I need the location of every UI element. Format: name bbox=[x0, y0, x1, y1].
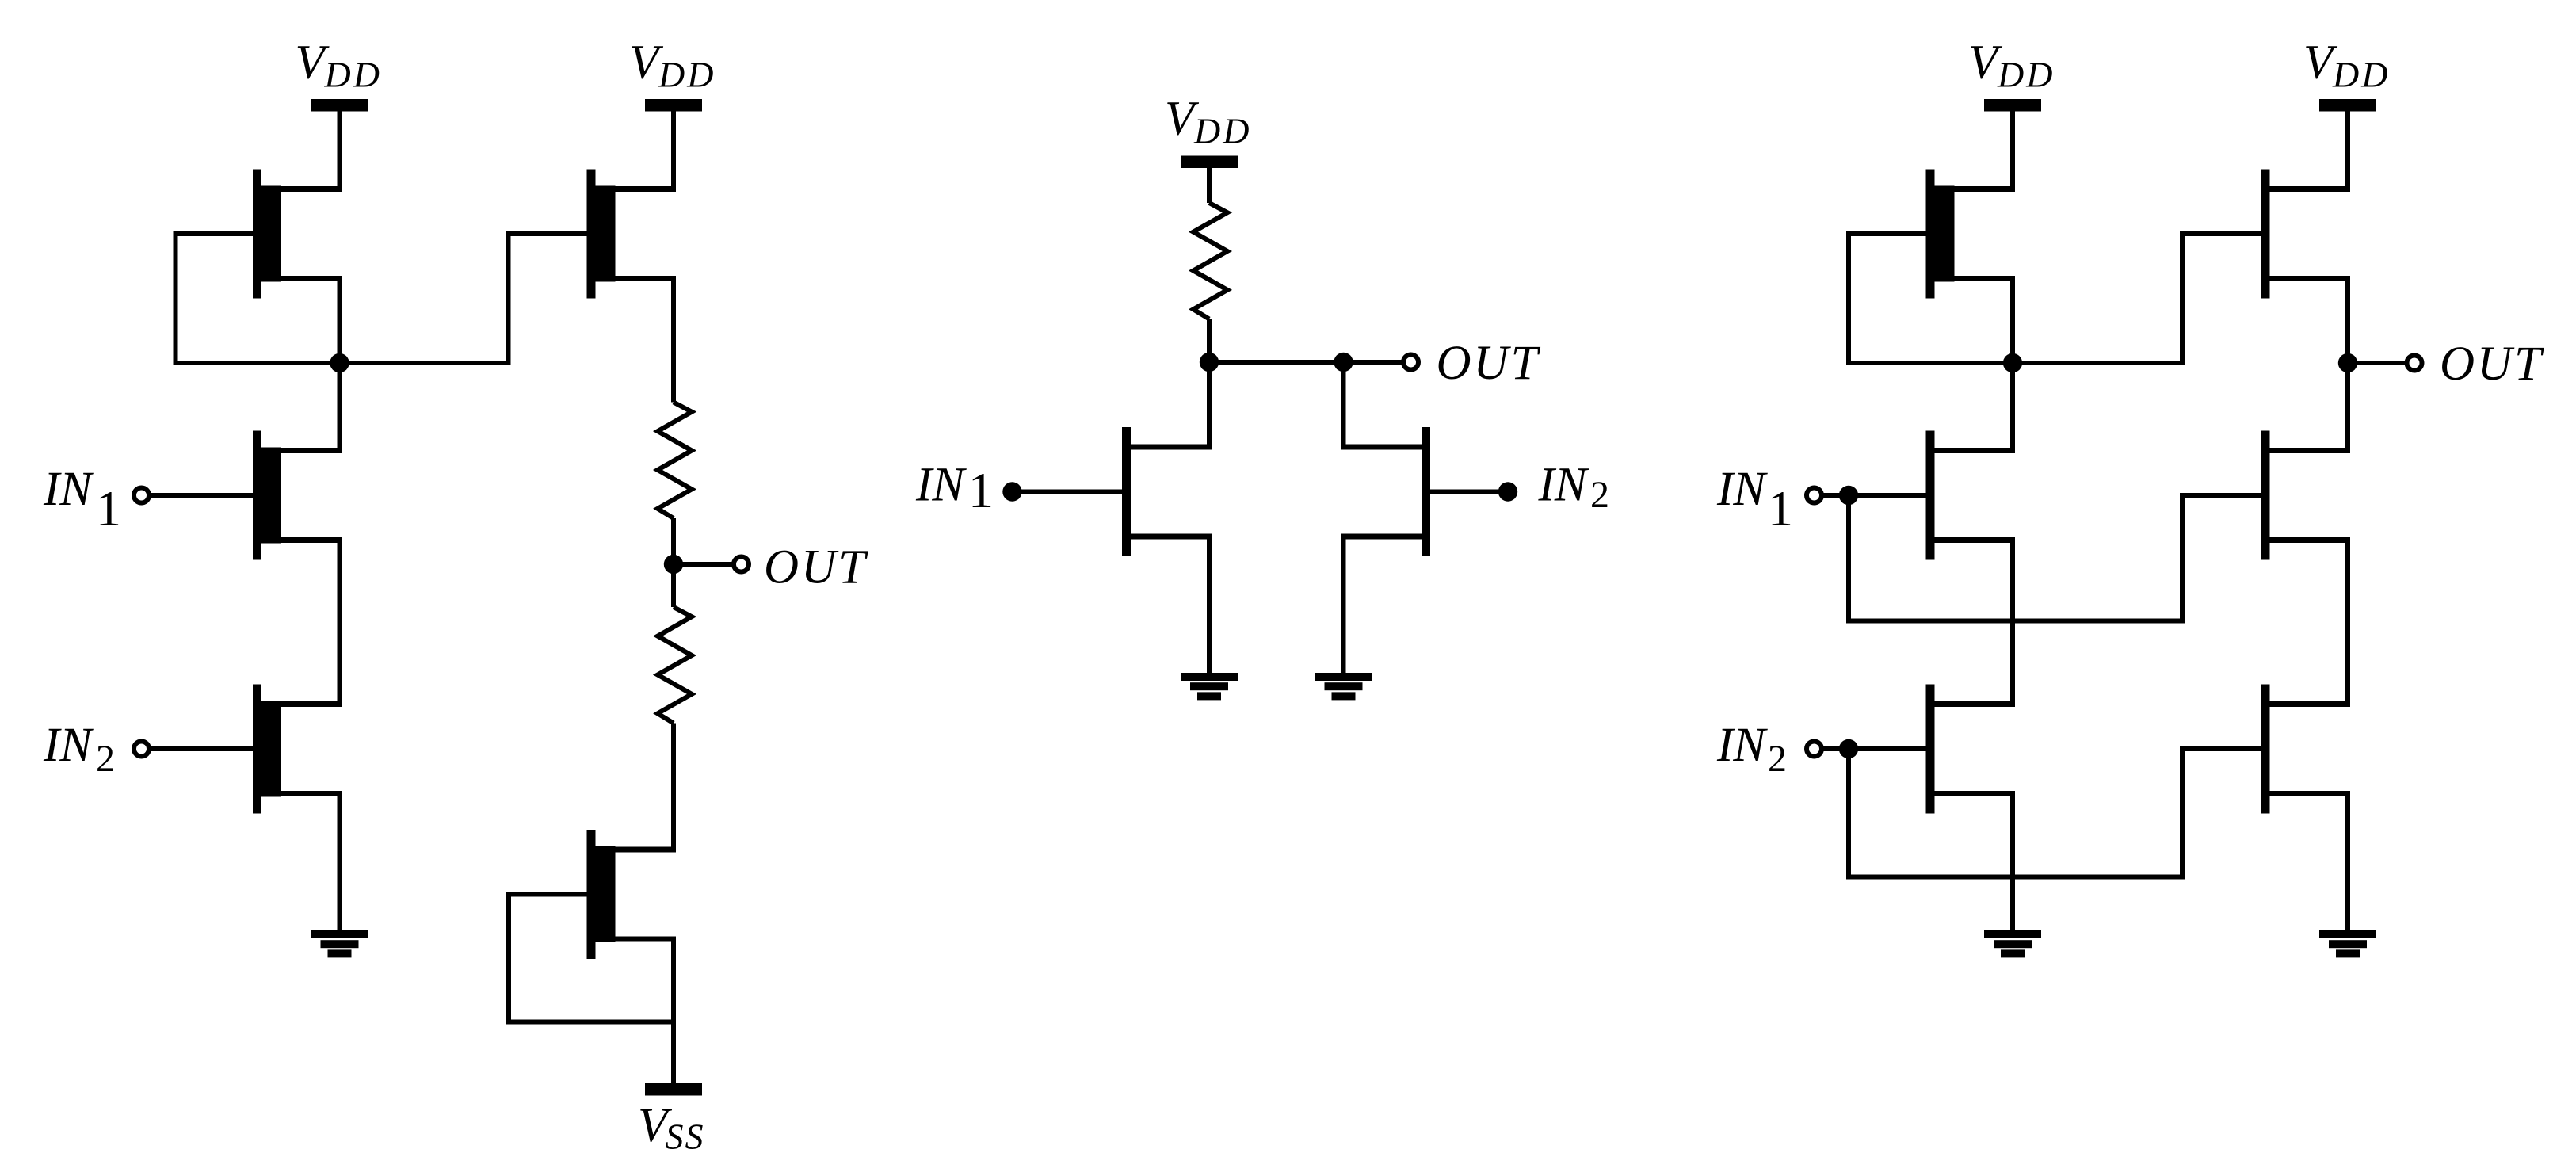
transistor Q2 (source follower) bbox=[587, 170, 677, 299]
svg-text:1: 1 bbox=[968, 462, 994, 518]
transistor Q3 (input IN1) bbox=[253, 431, 342, 560]
terminal OUT open circle (left) bbox=[734, 557, 749, 572]
svg-text:OUT: OUT bbox=[2440, 338, 2544, 391]
node IN1 junction dot (right) bbox=[1839, 486, 1858, 505]
label OUT (left) bbox=[764, 541, 868, 594]
terminal IN1 open circle (right) bbox=[1807, 488, 1822, 503]
transistor Q11 (IN1 second stage) bbox=[2261, 431, 2351, 560]
svg-text:IN: IN bbox=[1538, 459, 1589, 512]
label IN2 (left) bbox=[43, 719, 115, 780]
label OUT (middle) bbox=[1437, 337, 1541, 390]
transistor Q8 (depletion load, diode-connected) bbox=[1926, 170, 2016, 299]
svg-text:IN: IN bbox=[915, 459, 967, 512]
power symbol VDD4 (VDD) bbox=[1968, 36, 2055, 112]
power symbol VDD2 (VDD) bbox=[629, 36, 716, 112]
resistor R3 (load) bbox=[1193, 203, 1227, 319]
terminal IN1 open circle bbox=[134, 488, 149, 503]
wire Q12 source to ground bbox=[2010, 794, 2015, 931]
wire Q13 source to ground bbox=[2345, 794, 2350, 931]
transistor Q4 (input IN2) bbox=[253, 685, 342, 814]
resistor R1 bbox=[658, 403, 692, 519]
wire node C to Q7 drain bbox=[1341, 362, 1346, 447]
node C junction dot bbox=[1334, 353, 1353, 372]
transistor Q10 (input IN1) bbox=[1926, 431, 2016, 560]
terminal IN2 open circle bbox=[134, 742, 149, 757]
svg-text:1: 1 bbox=[96, 480, 121, 536]
ground GND2 bbox=[1181, 673, 1238, 700]
transistor Q12 (input IN2) bbox=[1926, 685, 2016, 814]
wire OUT node to OUT terminal bbox=[2348, 361, 2405, 365]
wire R3 to node B and Q6 drain bbox=[1207, 319, 1212, 448]
wire VDD1 to Q1 drain bbox=[338, 111, 342, 189]
wire Q9 source to OUT node and Q11 drain bbox=[2345, 279, 2350, 451]
wire Q6 source to ground bbox=[1207, 536, 1212, 673]
ground GND5 bbox=[2319, 930, 2376, 957]
wire VDD3 to resistor R3 bbox=[1207, 167, 1212, 203]
wire IN1 terminal to Q6 gate bbox=[1013, 490, 1123, 494]
transistor Q6 (input IN1) bbox=[1122, 427, 1212, 556]
svg-text:DD: DD bbox=[658, 55, 716, 95]
wire node A to Q2 gate bbox=[340, 234, 587, 363]
power symbol VDD3 (VDD) bbox=[1165, 93, 1251, 169]
wire Q1 source to node A bbox=[338, 279, 342, 451]
svg-text:1: 1 bbox=[1768, 480, 1793, 536]
svg-text:DD: DD bbox=[324, 55, 382, 95]
wire node B to node C bbox=[1209, 360, 1344, 365]
node B junction dot bbox=[1200, 353, 1219, 372]
wire Q5 gate loop to source bbox=[509, 895, 674, 1022]
ground GND1 bbox=[311, 930, 368, 957]
wire IN2 terminal to Q12 gate bbox=[1824, 746, 1926, 751]
terminal OUT open circle (right) bbox=[2407, 356, 2422, 371]
wire Q5 source to VSS bbox=[671, 939, 676, 1085]
svg-text:IN: IN bbox=[1716, 463, 1768, 516]
node OUT (left) junction dot bbox=[664, 555, 683, 574]
label IN1 (left) bbox=[43, 463, 121, 536]
wire Q1 gate loop to node A bbox=[176, 234, 340, 363]
wire node C to OUT terminal bbox=[1344, 360, 1402, 365]
ground GND3 bbox=[1315, 673, 1372, 700]
label IN1 (right) bbox=[1716, 463, 1793, 536]
wire Q8 source to node D and Q10 drain bbox=[2010, 279, 2015, 451]
node D junction dot bbox=[2003, 353, 2022, 372]
wire IN2 to Q13 gate bbox=[1849, 749, 2261, 877]
wire Q3 source to Q4 drain bbox=[338, 540, 342, 704]
wire IN1 to Q11 gate bbox=[1849, 495, 2261, 621]
transistor Q7 (input IN2, mirrored) bbox=[1341, 427, 1431, 556]
wire Q2 source to resistor R1 bbox=[671, 279, 676, 403]
resistor R2 bbox=[658, 607, 692, 724]
svg-text:2: 2 bbox=[1768, 738, 1787, 780]
power symbol VSS1 (VSS) bbox=[638, 1083, 705, 1157]
wire node D to Q9 gate bbox=[2013, 234, 2261, 363]
node OUT (right) junction dot bbox=[2338, 353, 2357, 372]
transistor Q5 (level-shift pull-down, diode-connected) bbox=[587, 830, 677, 959]
svg-text:OUT: OUT bbox=[1437, 337, 1541, 390]
wire VDD4 to Q8 drain bbox=[2010, 111, 2015, 189]
terminal OUT open circle (middle) bbox=[1403, 355, 1418, 370]
wire R2 to Q5 drain bbox=[671, 724, 676, 850]
terminal IN2 dot (middle) bbox=[1498, 482, 1517, 501]
node IN2 junction dot (right) bbox=[1839, 739, 1858, 758]
wire Q11 source to Q13 drain bbox=[2345, 540, 2350, 704]
transistor Q1 (depletion load, diode-connected) bbox=[253, 170, 342, 299]
node A junction dot bbox=[330, 353, 349, 372]
power symbol VDD5 (VDD) bbox=[2303, 36, 2390, 112]
label OUT (right) bbox=[2440, 338, 2544, 391]
wire Q7 source to ground bbox=[1341, 536, 1346, 673]
power symbol VDD1 (VDD) bbox=[296, 36, 382, 112]
wire IN1 terminal to Q10 gate bbox=[1824, 493, 1926, 498]
wire OUT node to OUT terminal bbox=[674, 562, 732, 567]
wire IN1 terminal to Q3 gate bbox=[151, 493, 254, 498]
wire IN2 terminal to Q4 gate bbox=[151, 746, 254, 751]
svg-text:DD: DD bbox=[1997, 55, 2055, 95]
svg-text:IN: IN bbox=[43, 463, 94, 516]
wire Q10 source to Q12 drain bbox=[2010, 540, 2015, 704]
wire VDD2 to Q2 drain bbox=[671, 111, 676, 189]
svg-text:DD: DD bbox=[1193, 111, 1251, 151]
label IN2 (middle) bbox=[1538, 459, 1610, 517]
wire Q8 gate loop to node D bbox=[1849, 234, 2013, 363]
label IN1 (middle) bbox=[915, 459, 994, 519]
wire Q4 source to ground bbox=[338, 794, 342, 931]
svg-text:2: 2 bbox=[1590, 474, 1609, 516]
label IN2 (right) bbox=[1716, 719, 1787, 780]
terminal IN2 open circle (right) bbox=[1807, 742, 1822, 757]
svg-text:IN: IN bbox=[1716, 719, 1768, 772]
terminal IN1 dot (middle) bbox=[1002, 482, 1021, 501]
transistor Q13 (IN2 second stage) bbox=[2261, 685, 2351, 814]
svg-text:DD: DD bbox=[2332, 55, 2390, 95]
wire R1 to OUT node bbox=[671, 518, 676, 607]
ground GND4 bbox=[1984, 930, 2041, 957]
svg-text:SS: SS bbox=[666, 1117, 705, 1157]
wire Q7 gate to IN2 terminal bbox=[1430, 490, 1508, 494]
wire VDD5 to Q9 drain bbox=[2345, 111, 2350, 189]
transistor Q9 (output pull-up) bbox=[2261, 170, 2351, 299]
svg-text:IN: IN bbox=[43, 719, 94, 772]
svg-text:OUT: OUT bbox=[764, 541, 868, 594]
svg-text:2: 2 bbox=[96, 738, 115, 780]
